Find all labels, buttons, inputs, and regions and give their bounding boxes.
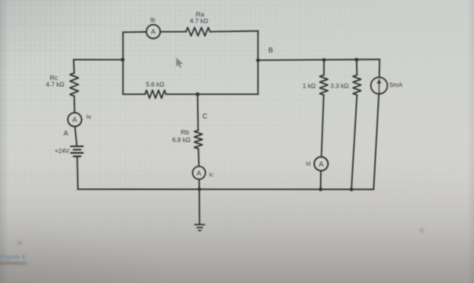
current source I1 5 mA (circle with up arrow): [371, 77, 387, 93]
svg-text:Rb: Rb: [181, 130, 190, 137]
junction dot: node B at BR vertical: [256, 58, 260, 62]
wire: inner-loop bottom, BL corner to resistor 5.6k: [123, 93, 145, 95]
svg-text:A: A: [151, 27, 156, 36]
resistor R 3.3 kOhm (vertical zigzag): [353, 75, 361, 95]
ammeter Id (circle A in 1 kOhm branch): [314, 157, 328, 171]
mouse cursor: [176, 58, 183, 68]
svg-text:Id: Id: [306, 161, 311, 167]
svg-text:3.3 kΩ: 3.3 kΩ: [330, 83, 349, 90]
wire: ground stub below bottom rail: [198, 189, 200, 224]
ammeter Ib (circle A in top rail): [147, 25, 161, 39]
resistor Rc 4.7 kOhm (vertical zigzag): [70, 73, 78, 96]
resistor Rb 6.8 kOhm (vertical zigzag): [194, 130, 202, 148]
resistor Ra 4.7 kOhm (horizontal zigzag): [186, 28, 210, 36]
svg-text:5mA: 5mA: [390, 82, 404, 89]
wire: top rail left segment (TL corner to ammeter Ib): [123, 31, 147, 33]
wire: node C branch from inner-loop bottom down to resistor Rb: [197, 94, 200, 130]
svg-text:1 kΩ: 1 kΩ: [302, 83, 315, 90]
wire: Rc to ammeter Ia: [73, 96, 75, 113]
svg-text:Ib: Ib: [150, 18, 156, 24]
svg-text:5.6 kΩ: 5.6 kΩ: [146, 82, 165, 89]
dark streak lower-left (photo artifact): [0, 228, 424, 264]
svg-text:Figure 4: Figure 4: [1, 254, 26, 261]
wire: right corner down to 5 mA source: [378, 59, 380, 77]
svg-text:4.7 kΩ: 4.7 kΩ: [190, 18, 209, 25]
svg-text:6.8 kΩ: 6.8 kΩ: [172, 137, 191, 144]
svg-text:A: A: [319, 159, 324, 168]
svg-text:+24V: +24V: [55, 148, 70, 155]
wire: top rail right segment (Ra to TR corner): [210, 30, 258, 33]
wire: bottom rail (from battery corner to current-source corner): [78, 188, 374, 190]
wire: left stub from left branch to inner-loop left side: [74, 59, 123, 61]
wire: ammeter Id down to bottom rail: [320, 171, 322, 190]
wire: inner-loop bottom, 5.6k to BR corner through node C junction: [166, 93, 258, 95]
wire: Rb to ammeter Ic: [197, 149, 200, 167]
svg-text:A: A: [63, 131, 68, 138]
wire: ammeter Ia to battery top: [75, 126, 77, 146]
wire: inner-loop right vertical (TR corner down to BR corner): [257, 31, 259, 94]
ammeter Ia (circle A in left branch): [68, 113, 82, 127]
svg-text:A: A: [197, 170, 202, 177]
wire: 3.3 kOhm branch top (node B rail down to resistor): [356, 60, 358, 75]
wire: 1 kOhm branch top (node B rail down to resistor): [323, 60, 325, 75]
resistor R 1 kOhm (vertical zigzag): [320, 75, 328, 95]
svg-text:4.7 kΩ: 4.7 kΩ: [46, 82, 65, 89]
junction dot: node C on inner-loop bottom: [196, 92, 200, 96]
junction dot: ground branch on bottom rail: [198, 188, 201, 191]
wire: inner-loop left vertical (TL corner down to BL corner): [122, 32, 124, 94]
svg-text:C: C: [202, 113, 207, 120]
junction dot: 3.3 kOhm branch on node B rail: [355, 58, 359, 62]
junction dot: 1 kOhm branch on node B rail: [322, 58, 326, 62]
wire: 1 kOhm resistor down to ammeter Id: [321, 95, 323, 157]
svg-text:Ic: Ic: [209, 173, 214, 179]
junction dot: left stub joins inner-loop left vertical: [121, 58, 125, 62]
battery V1 +24V plates: [71, 146, 83, 156]
junction dot: 3.3 kOhm branch on bottom rail: [350, 188, 354, 192]
svg-text:B: B: [268, 48, 273, 55]
resistor 5.6 kOhm (horizontal zigzag): [145, 90, 166, 98]
wire: node B rail (BR junction to right corner above 5 mA source): [258, 58, 380, 61]
wire: ammeter Ic down across bottom rail: [198, 179, 200, 189]
wire: battery bottom down to bottom-left corner: [76, 156, 79, 189]
ground symbol: [195, 225, 204, 231]
junction dot: Id branch on bottom rail: [319, 188, 323, 192]
wire: 3.3 kOhm resistor down to bottom rail: [351, 95, 357, 189]
wire: top rail between ammeter Ib and resistor Ra: [160, 31, 186, 33]
wire: 5 mA source down to bottom rail corner: [374, 94, 379, 190]
ammeter Ic (circle A in node C branch): [193, 167, 206, 180]
svg-text:A: A: [72, 115, 77, 124]
wire: left branch top (corner down to resistor Rc): [73, 60, 76, 73]
